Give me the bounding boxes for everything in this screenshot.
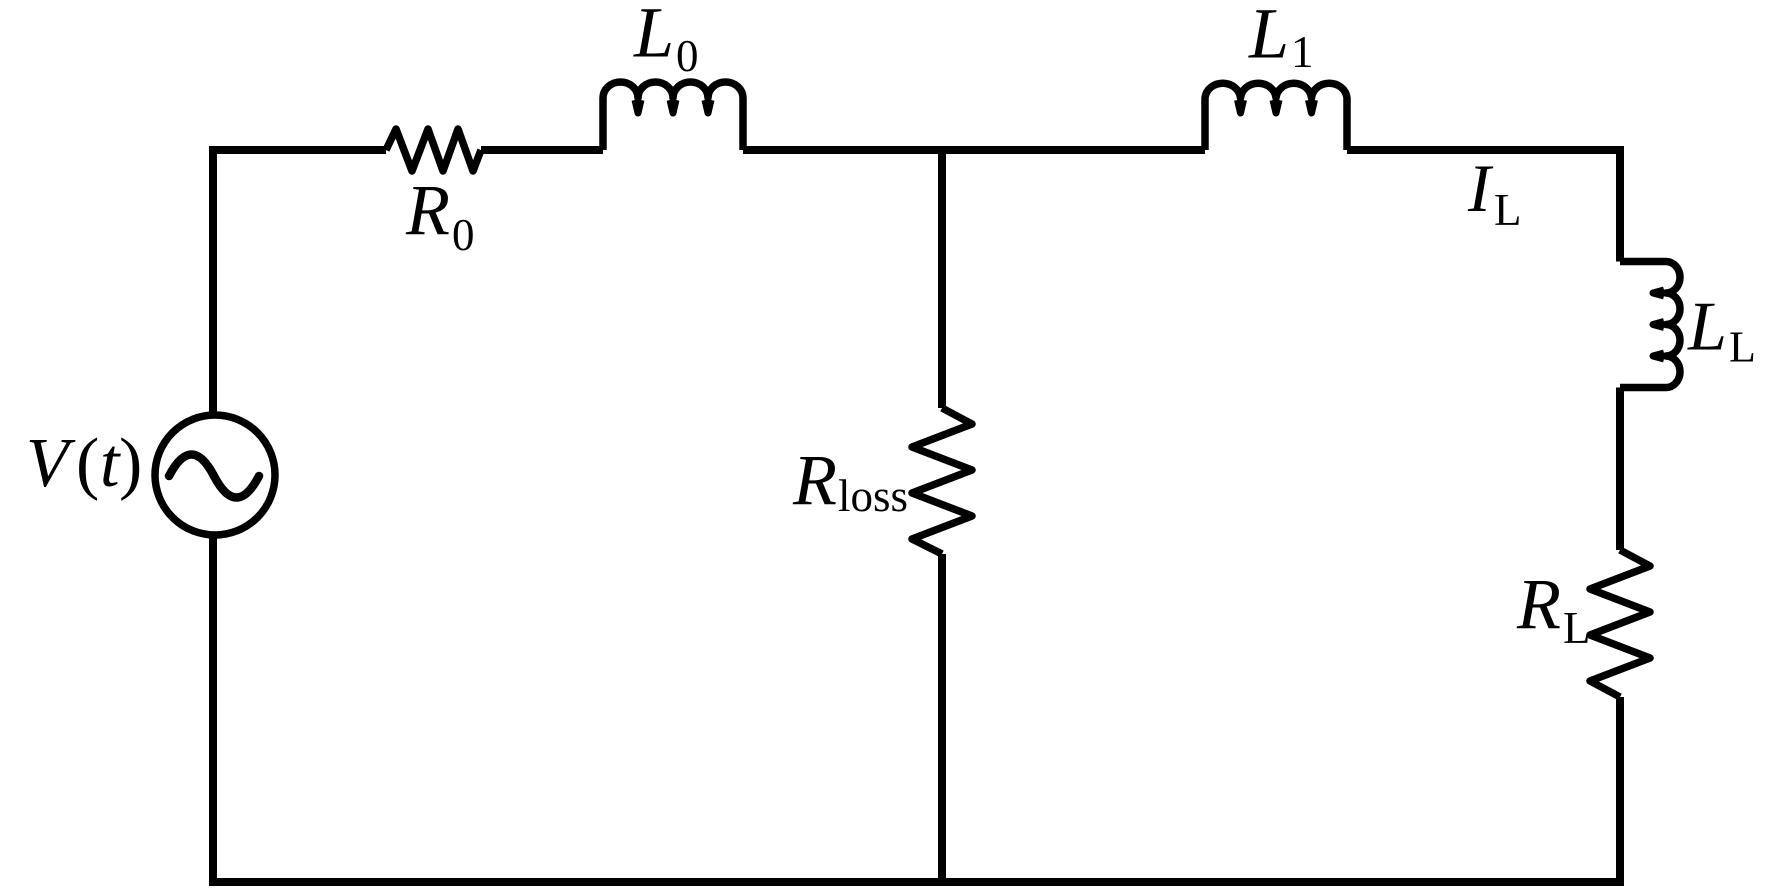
wire top-left horizontal xyxy=(213,146,386,154)
wire middle vertical lower xyxy=(938,554,946,882)
svg-text:L: L xyxy=(1729,323,1756,372)
inductor LL xyxy=(1620,262,1680,388)
svg-text:1: 1 xyxy=(1291,27,1314,77)
svg-text:V: V xyxy=(26,425,76,502)
svg-text:L: L xyxy=(1687,289,1727,366)
svg-text:0: 0 xyxy=(452,210,475,260)
wire right vertical upper xyxy=(1616,146,1624,262)
resistor RL xyxy=(1590,550,1650,697)
svg-text:R: R xyxy=(405,170,450,250)
svg-text:(: ( xyxy=(76,425,99,502)
svg-text:R: R xyxy=(1516,564,1561,644)
source sine symbol xyxy=(169,455,259,498)
wire top between R0 and L0 xyxy=(481,146,603,154)
node junction top middle xyxy=(938,146,946,154)
svg-text:I: I xyxy=(1467,150,1494,226)
wire top-right horizontal xyxy=(1347,146,1620,154)
svg-text:0: 0 xyxy=(676,31,699,81)
resistor R0 xyxy=(386,129,481,171)
wire left vertical lower xyxy=(209,537,217,882)
svg-text:): ) xyxy=(119,425,142,502)
wire middle vertical upper xyxy=(938,150,946,408)
svg-text:L: L xyxy=(633,0,674,73)
wire top between L0 and L1 xyxy=(743,146,1205,154)
svg-text:t: t xyxy=(100,425,121,502)
wire right vertical middle xyxy=(1616,388,1624,551)
svg-text:L: L xyxy=(1248,0,1289,74)
wire bottom horizontal xyxy=(209,878,1624,886)
inductor L0 xyxy=(603,82,743,150)
svg-text:R: R xyxy=(792,440,837,520)
wire left vertical upper xyxy=(209,146,217,413)
source V(t) circle xyxy=(155,415,275,535)
wire right vertical lower xyxy=(1616,697,1624,882)
svg-text:L: L xyxy=(1494,185,1522,235)
inductor L1 xyxy=(1205,83,1347,150)
svg-text:loss: loss xyxy=(838,471,908,521)
resistor Rloss xyxy=(912,408,972,554)
svg-text:L: L xyxy=(1563,603,1591,653)
